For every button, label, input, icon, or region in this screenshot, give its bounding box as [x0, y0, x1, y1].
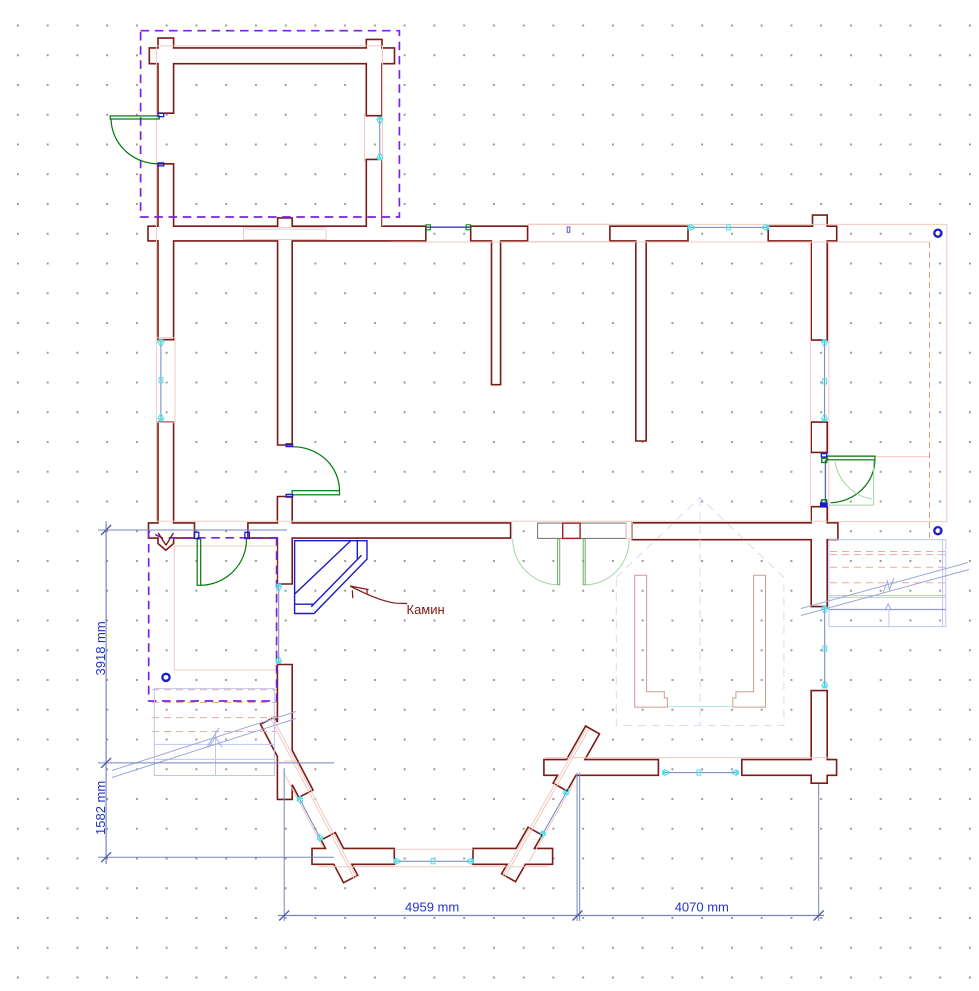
- svg-text:Камин: Камин: [407, 602, 445, 617]
- svg-text:1582 mm: 1582 mm: [93, 781, 108, 835]
- svg-text:3918 mm: 3918 mm: [93, 621, 108, 675]
- svg-text:4959 mm: 4959 mm: [405, 900, 459, 915]
- svg-text:4070 mm: 4070 mm: [675, 900, 729, 915]
